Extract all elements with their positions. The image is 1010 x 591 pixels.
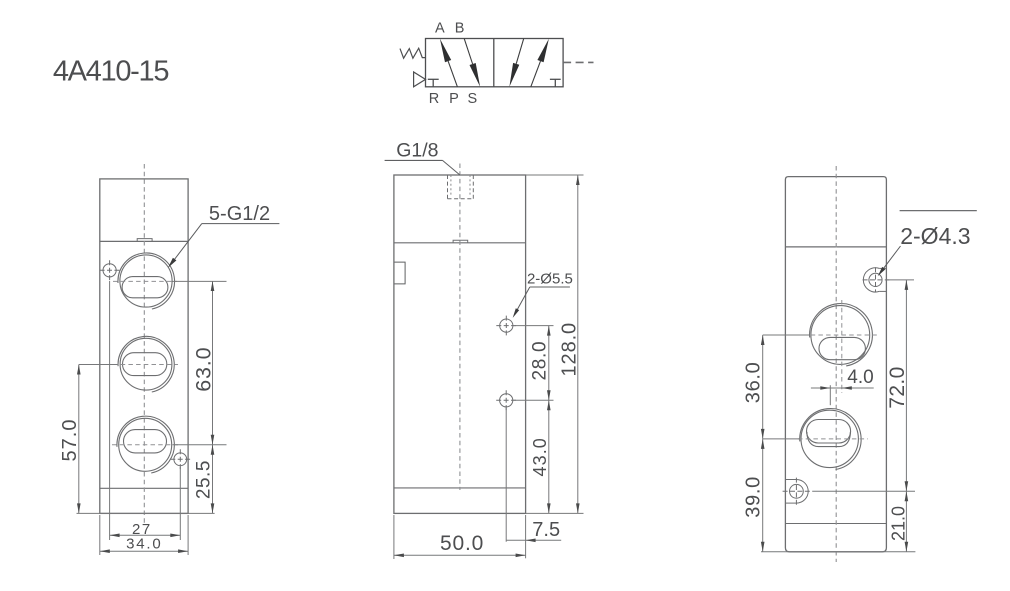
spring (left of valve): [400, 48, 426, 58]
label 2-Ø4.3 overline: [900, 210, 977, 212]
svg-text:50.0: 50.0: [440, 532, 484, 555]
dim 34.0 arrows: [100, 549, 188, 553]
flow arrow P to A (left cell): [440, 39, 458, 87]
port 3 horizontal centerline: [112, 444, 178, 446]
side notch on left edge: [395, 262, 406, 284]
dim 128.0 line: [577, 175, 579, 513]
svg-text:4A410-15: 4A410-15: [53, 55, 169, 87]
svg-text:25.5: 25.5: [193, 460, 214, 499]
svg-text:28.0: 28.0: [529, 341, 550, 381]
valve symbol body U1: [426, 39, 564, 87]
svg-text:2-Ø5.5: 2-Ø5.5: [527, 271, 573, 288]
upper port horizontal centerline: [803, 334, 877, 336]
blocked port T (right cell): [550, 79, 561, 87]
bottom screw hole: [790, 484, 804, 498]
top screw counterbore open to right edge: [863, 267, 890, 292]
port 2 (middle G1/2) circle: [118, 336, 174, 392]
middle view cap divider: [394, 242, 526, 244]
svg-text:7.5: 7.5: [532, 519, 560, 541]
dim 28.0 arrows: [547, 326, 551, 514]
leader arrow to top screw: [878, 246, 901, 276]
middle view vertical centerline: [459, 164, 461, 491]
svg-text:5-G1/2: 5-G1/2: [209, 203, 270, 225]
svg-text:B: B: [455, 20, 465, 36]
dim 28.0/43.0 line: [548, 326, 550, 514]
leader arrow to port 1: [168, 224, 202, 268]
dim 128.0 arrows: [576, 175, 580, 513]
svg-text:63.0: 63.0: [191, 347, 215, 392]
blocked port T (R, left cell): [428, 79, 439, 87]
upper port circle (right view): [810, 304, 873, 366]
bottom edge extension line: [77, 512, 215, 514]
svg-text:S: S: [467, 91, 477, 107]
dim 4.0 arrows: [820, 386, 852, 390]
dim 72.0/21.0 line: [905, 280, 907, 552]
right view cap divider: [785, 246, 886, 248]
left view divider tab: [137, 239, 152, 242]
mount hole top (Ø5.5): [496, 316, 516, 336]
dim 7.5 extension line: [505, 408, 507, 542]
dim 4.0 line: [811, 387, 874, 389]
lower port horizontal centerline: [798, 438, 868, 440]
dim 63.0/25.5 line: [173, 281, 227, 513]
screw hole top-left: [100, 260, 120, 280]
dim 57.0 arrows: [77, 365, 81, 514]
top screw hole: [869, 273, 882, 286]
port 1 (top G1/2) circle: [118, 253, 175, 309]
label 5-G1/2 underline: [202, 223, 280, 225]
svg-text:21.0: 21.0: [888, 506, 908, 541]
left view vertical centerline: [143, 164, 145, 523]
dim 50.0 arrows: [394, 554, 526, 558]
upper port vertical centerline (offset 4.0): [841, 300, 843, 393]
mount hole bottom (Ø5.5): [496, 390, 516, 410]
svg-text:4.0: 4.0: [847, 367, 873, 388]
label 2-Ø5.5 underline: [530, 286, 570, 288]
left view body outline: [100, 179, 188, 514]
dim 36.0/39.0 line: [762, 335, 764, 552]
flow arrow up-right (right cell): [531, 39, 549, 87]
bottom screw counterbore open to left edge: [783, 478, 811, 506]
valve cell divider: [493, 39, 495, 87]
svg-text:72.0: 72.0: [886, 366, 909, 408]
dim 36.0/39.0 arrows: [761, 335, 765, 552]
middle view base divider: [394, 487, 526, 489]
dim 50.0 left extension: [393, 515, 395, 559]
dim 7.5 arrows: [526, 539, 536, 543]
dim 34.0 extension lines: [100, 515, 188, 555]
svg-text:57.0: 57.0: [59, 419, 81, 462]
right view vertical centerline: [835, 166, 837, 562]
svg-text:P: P: [449, 91, 459, 107]
dim 72.0 extension lines: [812, 280, 915, 491]
leader arrow to top hole: [513, 287, 530, 318]
port 1 horizontal centerline: [113, 280, 177, 282]
dim 27 arrows: [110, 534, 181, 538]
bottom edge extension right: [526, 512, 584, 514]
dim 36.0/39.0 extension lines: [761, 335, 915, 552]
leader line to G1/8 port: [443, 160, 460, 175]
dim 57.0 line: [79, 365, 117, 514]
svg-text:G1/8: G1/8: [396, 139, 438, 161]
manual override dashed line: [563, 61, 593, 63]
screw hole bottom-right: [170, 449, 190, 469]
svg-text:36.0: 36.0: [743, 362, 765, 404]
G1/8 threaded hole (hidden lines): [448, 175, 474, 199]
flow arrow B to S (left cell): [464, 39, 480, 87]
svg-text:39.0: 39.0: [743, 476, 765, 518]
svg-text:R: R: [429, 91, 439, 107]
dim 4.0 left tick: [829, 385, 831, 405]
left view base divider: [100, 487, 188, 489]
port 2 horizontal centerline: [113, 364, 178, 366]
dim 72.0/21.0 arrows: [905, 280, 909, 552]
port 3 (bottom G1/2) circle: [117, 416, 174, 473]
dim 7.5 line: [506, 539, 561, 541]
flow arrow down-left (right cell): [509, 39, 523, 87]
middle view divider tab: [453, 240, 468, 243]
svg-text:2-Ø4.3: 2-Ø4.3: [900, 223, 970, 249]
left view cap divider: [100, 240, 188, 242]
right edge extension down: [525, 515, 527, 558]
svg-text:43.0: 43.0: [530, 437, 550, 476]
label G1/8 underline: [385, 159, 443, 161]
dim 50.0 line: [394, 554, 526, 556]
dim 128.0 extension top: [526, 174, 584, 176]
valve body rect: [426, 39, 564, 87]
svg-text:128.0: 128.0: [558, 322, 580, 377]
right view base divider: [785, 523, 886, 525]
svg-text:34.0: 34.0: [126, 536, 162, 553]
dim 34.0 line: [100, 550, 188, 552]
pilot triangle: [414, 72, 426, 87]
right view body outline: [785, 177, 886, 552]
lower port circle (right view): [800, 409, 861, 470]
dim 27 line: [110, 534, 181, 536]
svg-text:A: A: [435, 20, 445, 36]
dim 28.0 extension lines: [514, 326, 554, 401]
dim 63.0 arrows: [211, 281, 215, 513]
dim 27 extension lines: [110, 281, 181, 540]
middle view body outline: [394, 175, 526, 513]
